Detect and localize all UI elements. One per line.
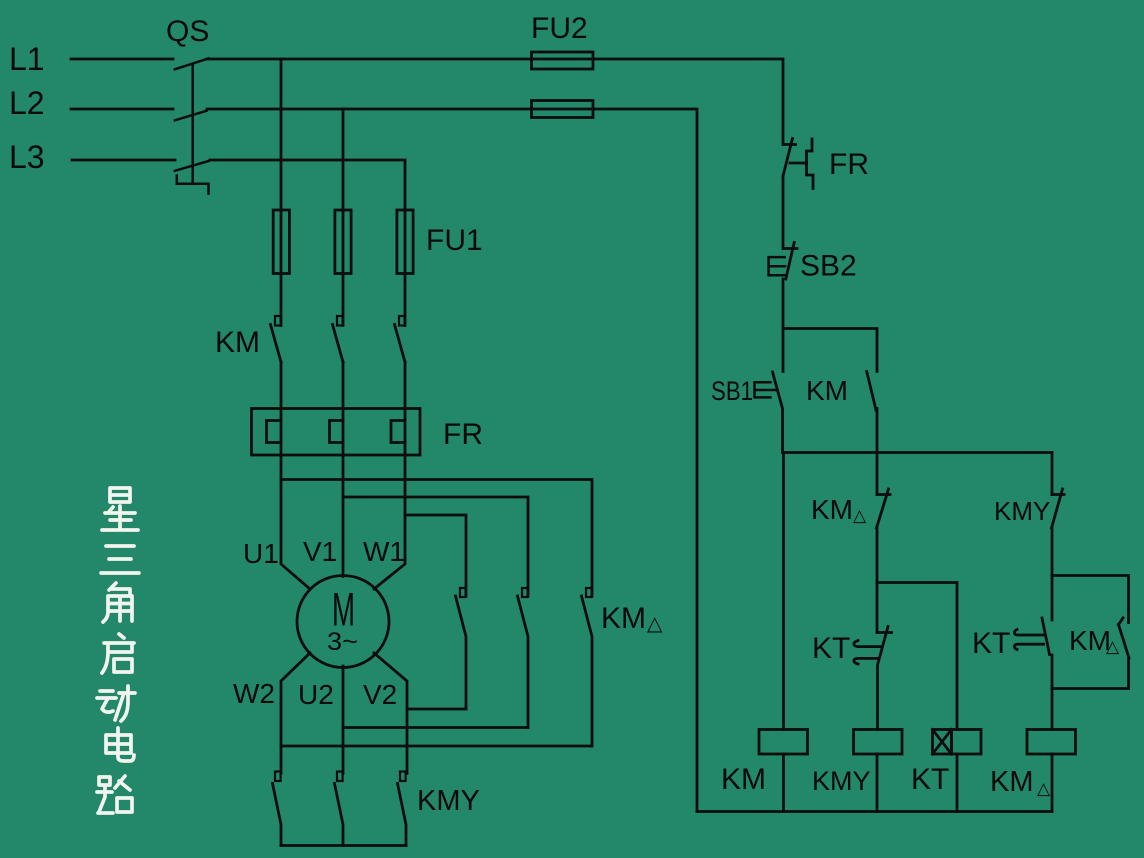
caption star-delta starting circuit (Chinese, hand-drawn strokes) bbox=[97, 488, 139, 813]
fuse FU2a bbox=[532, 52, 594, 69]
contact FR NC (control) bbox=[783, 139, 813, 189]
coil KM bbox=[759, 730, 808, 755]
svg-text:FU2: FU2 bbox=[531, 12, 588, 45]
svg-text:SB1: SB1 bbox=[711, 376, 753, 406]
wire L1 fuse run to control feed bbox=[531, 59, 783, 144]
wire column 2 from L2 bbox=[342, 109, 345, 211]
wire star point bar bbox=[281, 844, 406, 847]
wire branch to KM aux bbox=[783, 329, 877, 372]
svg-text:SB2: SB2 bbox=[800, 250, 857, 283]
wire delta link U2 to pole2 bbox=[343, 726, 528, 729]
wire KM pole3 to FR bbox=[404, 362, 407, 409]
label KM-delta interlock bbox=[811, 494, 867, 525]
wire KM coil to bottom bbox=[782, 754, 785, 812]
wire column 1 from L1 bbox=[280, 59, 283, 211]
wire col2 FR to motor V1 bbox=[342, 455, 345, 577]
svg-text:U2: U2 bbox=[298, 679, 334, 710]
switch QS linkage bbox=[177, 64, 209, 194]
contactor KM main pole 1 bbox=[271, 316, 282, 362]
svg-text:FU1: FU1 bbox=[426, 224, 483, 257]
contactor KM main pole 2 bbox=[333, 316, 344, 362]
svg-text:L1: L1 bbox=[9, 41, 45, 77]
FR heater element 2 bbox=[330, 409, 344, 456]
wire L2 to FU2 bbox=[207, 108, 531, 111]
fuse FU2b bbox=[532, 101, 594, 118]
wire bottom rung bbox=[697, 810, 1052, 813]
wire L1 lead bbox=[71, 58, 173, 61]
contact KM aux NO bbox=[867, 371, 877, 452]
motor M circle bbox=[297, 576, 389, 668]
char Jiao (angle) bbox=[103, 583, 132, 622]
svg-text:L3: L3 bbox=[9, 139, 45, 175]
svg-text:KT: KT bbox=[812, 632, 850, 665]
svg-text:KM: KM bbox=[215, 326, 260, 359]
wire column 3 from L3 bbox=[210, 160, 405, 211]
wire KM coil branch bbox=[782, 453, 785, 730]
wire col1 branch to KM-delta pole 3 bbox=[281, 480, 592, 597]
wire motor V2 down bbox=[374, 653, 407, 774]
wire KM pole2 to FR bbox=[342, 362, 345, 409]
svg-text:KM: KM bbox=[806, 375, 848, 406]
char Qi (start) bbox=[102, 634, 134, 673]
wire KM-delta NC to KT contact bbox=[876, 528, 879, 633]
wire KMY NC down bbox=[1051, 528, 1054, 620]
wire L2 lead bbox=[71, 108, 173, 111]
wire KM pole1 to FR bbox=[280, 362, 283, 409]
wire fuse3 to KM contact bbox=[404, 274, 407, 326]
wire KT NC to KM-delta coil bbox=[1051, 655, 1054, 730]
svg-text:V1: V1 bbox=[303, 536, 337, 567]
wire KMY branch upper bbox=[876, 453, 879, 495]
svg-text:L2: L2 bbox=[9, 85, 45, 121]
FR heater element 1 bbox=[267, 409, 282, 456]
svg-text:KM: KM bbox=[601, 602, 646, 635]
svg-text:KM: KM bbox=[721, 763, 766, 796]
thermal overload FR box bbox=[252, 409, 421, 456]
label KM-delta coil bbox=[990, 766, 1051, 798]
svg-text:△: △ bbox=[1106, 637, 1120, 656]
svg-text:U1: U1 bbox=[243, 538, 279, 569]
svg-text:KMY: KMY bbox=[994, 496, 1050, 526]
svg-text:KM: KM bbox=[1069, 625, 1111, 656]
FR heater element 3 bbox=[391, 409, 405, 456]
wire KMY NC branch bbox=[1051, 453, 1054, 495]
fuse FU1a bbox=[273, 210, 289, 274]
svg-text:KMY: KMY bbox=[812, 766, 871, 796]
wire rung node A bbox=[783, 451, 1052, 454]
wire motor U2 down bbox=[342, 666, 345, 774]
coil KM-delta bbox=[1027, 730, 1076, 755]
svg-text:FR: FR bbox=[443, 418, 483, 451]
contact KM-delta NO self-hold bbox=[1119, 618, 1130, 689]
fuse FU1c bbox=[397, 210, 413, 274]
svg-text:△: △ bbox=[647, 613, 663, 635]
pushbutton SB1 NO bbox=[755, 372, 783, 453]
char Lu (road) bbox=[97, 776, 132, 813]
svg-text:KT: KT bbox=[911, 763, 949, 796]
contact KT NC delayed bbox=[1014, 618, 1049, 655]
wire col3 branch to KM-delta pole 1 bbox=[405, 515, 466, 596]
contact KMY NC interlock bbox=[1052, 489, 1065, 528]
pushbutton SB2 NC bbox=[769, 243, 797, 280]
wire fuse2 to KM contact bbox=[342, 274, 345, 326]
contactor KMY pole 2 bbox=[335, 772, 344, 846]
wire parallel bottom link bbox=[1052, 687, 1129, 690]
wire L2 fuse run to return line bbox=[531, 109, 697, 812]
svg-text:KMY: KMY bbox=[417, 785, 480, 817]
contactor KM-delta pole 3 bbox=[582, 588, 593, 746]
wire delta link V2 to pole1 bbox=[407, 708, 466, 711]
wire SB2 to SB1 bbox=[782, 279, 785, 372]
switch QS pole 1 bbox=[175, 59, 209, 70]
svg-text:KM: KM bbox=[811, 494, 853, 525]
contactor KMY pole 3 bbox=[398, 772, 407, 846]
svg-text:QS: QS bbox=[166, 15, 209, 48]
wire col1 FR to motor U1 bbox=[281, 455, 310, 589]
char Xing (star) bbox=[102, 488, 138, 530]
coil KMY bbox=[854, 730, 903, 755]
wire L3 lead bbox=[72, 159, 175, 162]
wire branch to KT coil bbox=[877, 583, 957, 730]
wire fuse1 to KM contact bbox=[280, 274, 283, 326]
char Dian (electric) bbox=[106, 728, 134, 761]
wire col2 branch to KM-delta pole 2 bbox=[343, 497, 528, 596]
wire delta link W2 to pole3 bbox=[281, 745, 592, 748]
svg-text:△: △ bbox=[853, 506, 867, 525]
svg-text:KT: KT bbox=[972, 627, 1010, 660]
svg-text:W2: W2 bbox=[233, 678, 275, 709]
wire motor W2 down bbox=[281, 653, 310, 774]
wire FR to SB2 bbox=[782, 176, 785, 249]
switch QS pole 2 bbox=[175, 111, 207, 121]
svg-text:3~: 3~ bbox=[327, 628, 358, 656]
wire col3 FR to motor W1 bbox=[374, 455, 405, 589]
contact KM-delta NC interlock bbox=[877, 489, 891, 528]
contact KT NO delayed bbox=[854, 627, 892, 730]
switch QS pole 3 bbox=[175, 161, 209, 171]
wire branch to KM-delta NO top bbox=[1052, 576, 1129, 623]
svg-text:FR: FR bbox=[829, 148, 869, 181]
svg-text:△: △ bbox=[1037, 779, 1051, 798]
label KM-delta main bbox=[601, 602, 663, 635]
fuse FU1b bbox=[335, 210, 351, 274]
svg-text:V2: V2 bbox=[363, 679, 397, 710]
contactor KM-delta pole 2 bbox=[518, 588, 529, 728]
svg-text:W1: W1 bbox=[363, 536, 405, 567]
wire L1 to FU2 bbox=[207, 58, 531, 61]
wire KMY coil to bottom bbox=[876, 754, 879, 812]
contactor KMY pole 1 bbox=[273, 772, 282, 846]
wire KT coil to bottom bbox=[956, 754, 959, 812]
label KM-delta self-hold bbox=[1069, 625, 1120, 656]
char San (three) bbox=[101, 546, 139, 573]
coil KT with delay box bbox=[933, 730, 982, 755]
contactor KM main pole 3 bbox=[395, 316, 406, 362]
contactor KM-delta pole 1 bbox=[456, 588, 467, 709]
char Dong (move) bbox=[97, 686, 135, 721]
wire KM-delta coil to bottom bbox=[1051, 754, 1054, 812]
svg-text:KM: KM bbox=[990, 766, 1034, 798]
